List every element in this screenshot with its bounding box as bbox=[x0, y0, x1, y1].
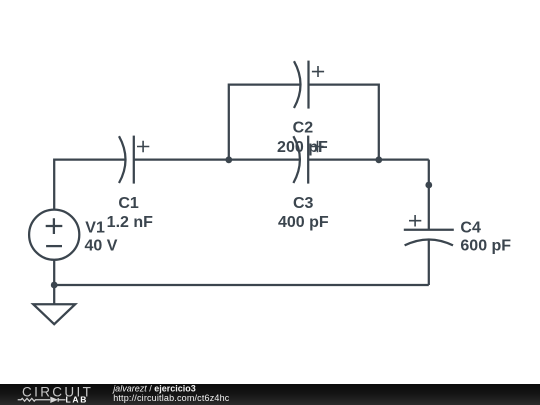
node junction dot C4 bbox=[425, 182, 432, 189]
wire right side down to C4 bbox=[428, 160, 430, 230]
node junction dot bottom bbox=[51, 282, 58, 289]
node junction dot left bbox=[225, 156, 232, 163]
footer bar bbox=[0, 384, 540, 405]
wire C2 branch right bbox=[309, 85, 379, 160]
wire C4 bottom bbox=[428, 240, 430, 285]
voltage source V1 bbox=[29, 210, 79, 260]
CircuitLab logo bbox=[18, 385, 94, 405]
capacitor C2 bbox=[294, 61, 324, 109]
wire bottom bbox=[54, 284, 429, 286]
capacitor C1 bbox=[119, 136, 149, 184]
wire C1 to C3 bbox=[134, 158, 300, 160]
wire C2 branch left bbox=[229, 85, 300, 160]
svg-text:jalvarezt / ejercicio3: jalvarezt / ejercicio3 bbox=[112, 383, 196, 393]
svg-text:LAB: LAB bbox=[66, 395, 89, 405]
svg-text:http://circuitlab.com/ct6z4hc: http://circuitlab.com/ct6z4hc bbox=[113, 393, 230, 403]
node junction dot right bbox=[375, 156, 382, 163]
capacitor C3 bbox=[293, 136, 323, 184]
capacitor C4 bbox=[404, 215, 454, 245]
wire C3 to right corner bbox=[308, 158, 429, 160]
wire V1 bottom to ground bbox=[53, 260, 55, 304]
ground bbox=[33, 304, 75, 324]
wire V1 top to C1 left bbox=[54, 160, 125, 210]
